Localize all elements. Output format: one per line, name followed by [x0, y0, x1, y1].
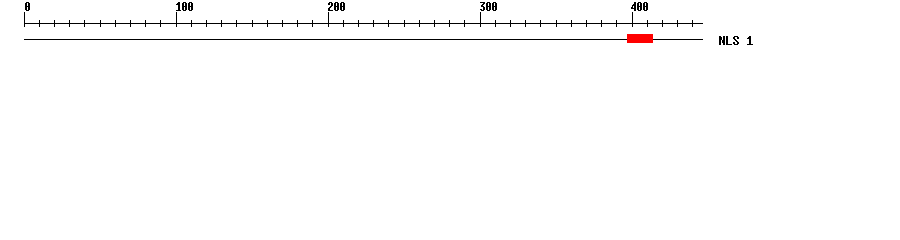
major tick 200: [328, 12, 329, 27]
minor tick 260: [419, 20, 420, 27]
major tick 100: [176, 12, 177, 27]
sequence line: [24, 39, 703, 40]
minor tick 140: [236, 20, 237, 27]
minor tick 380: [601, 20, 602, 27]
minor tick 10: [39, 20, 40, 27]
major tick 300: [480, 12, 481, 27]
minor tick 310: [495, 20, 496, 27]
minor tick 390: [616, 20, 617, 27]
minor tick 130: [221, 20, 222, 27]
minor tick 220: [358, 20, 359, 27]
minor tick 240: [388, 20, 389, 27]
major tick 400: [632, 12, 633, 27]
minor tick 410: [647, 20, 648, 27]
minor tick 230: [373, 20, 374, 27]
minor tick 30: [69, 20, 70, 27]
scale label 300: [480, 2, 497, 11]
minor tick 280: [449, 20, 450, 27]
minor tick 320: [510, 20, 511, 27]
minor tick 350: [556, 20, 557, 27]
feature label NLS 1: [719, 36, 753, 45]
scale label 0: [25, 2, 30, 11]
minor tick 270: [434, 20, 435, 27]
feature box NLS 1 (red): [627, 34, 653, 43]
minor tick 170: [282, 20, 283, 27]
minor tick 40: [84, 20, 85, 27]
minor tick 70: [130, 20, 131, 27]
minor tick 190: [312, 20, 313, 27]
minor tick 340: [540, 20, 541, 27]
minor tick 330: [525, 20, 526, 27]
minor tick 250: [404, 20, 405, 27]
minor tick 440: [692, 20, 693, 27]
major tick 0: [24, 12, 25, 27]
minor tick 180: [297, 20, 298, 27]
minor tick 110: [191, 20, 192, 27]
minor tick 150: [252, 20, 253, 27]
scale label 400: [631, 2, 648, 11]
minor tick 210: [343, 20, 344, 27]
minor tick 90: [160, 20, 161, 27]
minor tick 290: [464, 20, 465, 27]
minor tick 360: [571, 20, 572, 27]
minor tick 420: [662, 20, 663, 27]
scale label 200: [328, 2, 345, 11]
minor tick 160: [267, 20, 268, 27]
minor tick 80: [145, 20, 146, 27]
scale label 100: [176, 2, 193, 11]
minor tick 120: [206, 20, 207, 27]
minor tick 60: [115, 20, 116, 27]
minor tick 20: [54, 20, 55, 27]
ruler axis line: [24, 23, 703, 24]
minor tick 50: [100, 20, 101, 27]
minor tick 430: [677, 20, 678, 27]
minor tick 370: [586, 20, 587, 27]
